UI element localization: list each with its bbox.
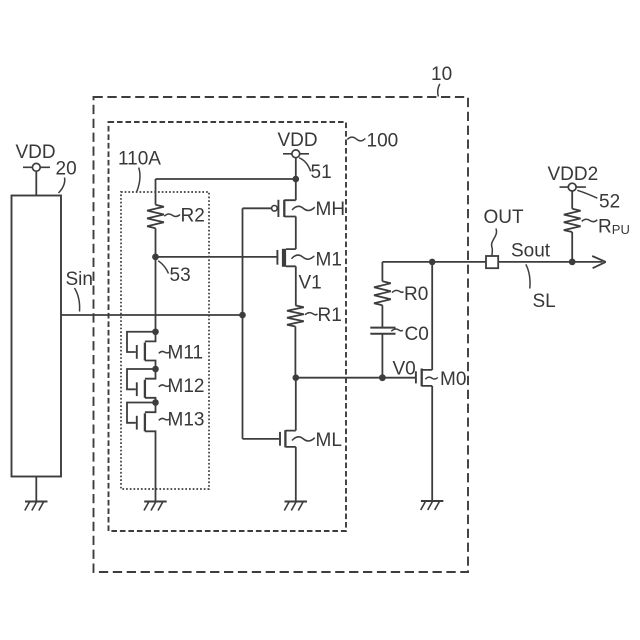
svg-text:C0: C0 [405,324,429,345]
node V1/R1 junction [293,374,300,381]
svg-text:R: R [598,217,612,238]
svg-text:M0: M0 [440,369,466,390]
wire RPU to SL node [571,232,573,262]
block 20 [12,196,62,477]
svg-text:V0: V0 [393,359,416,380]
svg-text:51: 51 [311,162,332,183]
wire R1 to node V1 junction [294,327,296,378]
svg-text:10: 10 [431,64,452,85]
svg-text:R1: R1 [318,305,342,326]
svg-text:100: 100 [367,131,399,152]
label 51 [299,158,331,183]
wire junction to V0 and M0 gate [296,377,415,379]
resistor R1 [287,305,342,327]
svg-text:PU: PU [612,222,630,237]
node SL junction [569,259,576,266]
wire Sout [382,259,602,266]
OUT terminal square [484,207,525,268]
label 100 [347,131,398,152]
outer dashed box 10 [94,97,469,572]
capacitor C0 [370,324,428,345]
ground (ML) [284,502,307,511]
wire Sout branch down to R0 [381,262,383,281]
svg-text:20: 20 [56,159,77,180]
svg-text:52: 52 [599,192,620,213]
svg-text:Sout: Sout [511,241,551,262]
svg-text:M11: M11 [168,343,204,364]
svg-text:53: 53 [170,265,191,286]
svg-text:M1: M1 [316,250,342,271]
svg-text:VDD: VDD [16,142,56,163]
svg-text:VDD2: VDD2 [548,164,599,185]
label 110A [118,149,161,192]
node 53 [152,254,191,287]
VDD2 terminal [548,164,599,209]
transistor MH [272,179,345,249]
dotted box 110A [121,192,209,489]
arrow SL end [592,256,606,268]
transistor M12 [127,366,204,403]
label SL [526,264,556,312]
resistor RPU [564,209,630,238]
svg-text:OUT: OUT [484,207,525,228]
wire node 53 to M1 gate [156,256,277,258]
transistor ML [280,378,342,502]
wire R0 to C0 [381,305,383,327]
label 10 [431,64,452,96]
label 20 [56,159,77,194]
svg-text:MH: MH [316,199,346,220]
resistor R0 [374,281,428,305]
svg-text:V1: V1 [299,273,322,294]
svg-text:VDD: VDD [278,130,318,151]
wire C0 to node V0 [381,334,383,378]
transistor M13 [127,399,204,501]
label Sin [66,269,93,312]
ground (M0) [421,501,444,510]
svg-text:SL: SL [533,291,556,312]
wire node 53 down to M11 [155,257,157,332]
transistor M1 [277,249,342,306]
svg-text:Sin: Sin [66,269,93,290]
svg-text:R0: R0 [404,284,428,305]
resistor R2 [147,205,205,229]
inner dashed box 100 [109,122,347,531]
svg-text:M12: M12 [168,376,205,397]
transistor M0 [416,262,467,501]
transistor M11 [127,328,203,369]
wire R2 to node 53 [155,228,157,257]
node V0 [379,359,416,382]
svg-text:R2: R2 [181,206,205,227]
wire VDD rail to R2 and MH [156,176,300,205]
svg-text:110A: 110A [118,149,161,170]
wire Sin [61,312,246,319]
svg-text:M13: M13 [168,410,205,431]
label 52 [577,190,620,212]
svg-text:ML: ML [316,430,342,451]
wire gate bus (MH/ML gates to Sin node) [243,208,280,439]
VDD terminal (block 20) [16,142,56,196]
ground (block 20) [25,477,48,511]
VDD terminal 51 [278,130,318,179]
ground (M13 stack) [144,502,167,511]
